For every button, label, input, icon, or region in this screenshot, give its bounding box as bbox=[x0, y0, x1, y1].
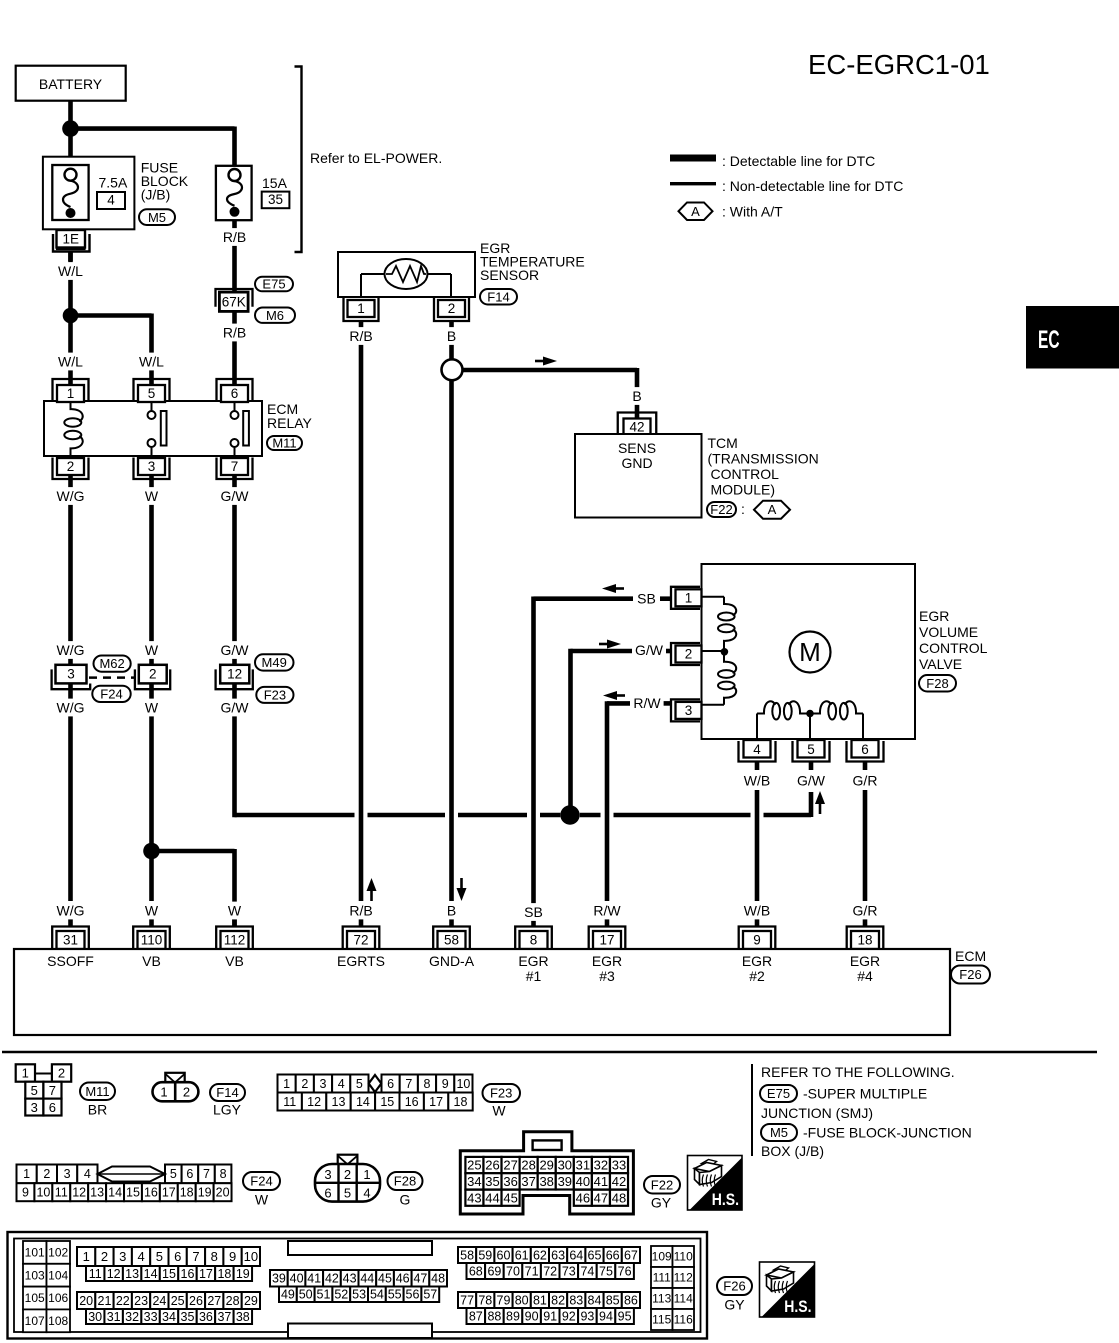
svg-text:37: 37 bbox=[521, 1174, 535, 1189]
svg-text:95: 95 bbox=[618, 1309, 632, 1323]
svg-text:25: 25 bbox=[171, 1294, 185, 1308]
svg-text:1: 1 bbox=[67, 386, 75, 401]
svg-text:27: 27 bbox=[503, 1158, 517, 1173]
svg-text:E75: E75 bbox=[262, 277, 285, 292]
svg-text:B: B bbox=[632, 388, 641, 404]
svg-text:91: 91 bbox=[543, 1309, 557, 1323]
svg-text:EGR: EGR bbox=[919, 608, 949, 624]
svg-text:48: 48 bbox=[431, 1272, 445, 1286]
svg-text:20: 20 bbox=[79, 1294, 93, 1308]
svg-text:F23: F23 bbox=[264, 688, 286, 703]
svg-text:MODULE): MODULE) bbox=[711, 482, 776, 498]
svg-text:R/B: R/B bbox=[223, 229, 246, 245]
svg-text:(TRANSMISSION: (TRANSMISSION bbox=[708, 451, 819, 467]
svg-text:112: 112 bbox=[224, 933, 246, 948]
svg-text:8: 8 bbox=[211, 1249, 218, 1264]
svg-text:VOLUME: VOLUME bbox=[919, 624, 978, 640]
svg-text:27: 27 bbox=[207, 1294, 221, 1308]
svg-text:17: 17 bbox=[199, 1267, 213, 1281]
svg-text:114: 114 bbox=[674, 1292, 693, 1306]
svg-text:CONTROL: CONTROL bbox=[711, 466, 780, 482]
svg-text:W/G: W/G bbox=[57, 700, 85, 716]
svg-text:4: 4 bbox=[84, 1167, 91, 1181]
svg-text:35: 35 bbox=[485, 1174, 499, 1189]
svg-text:11: 11 bbox=[283, 1095, 296, 1109]
svg-text:6: 6 bbox=[387, 1077, 394, 1091]
svg-text:94: 94 bbox=[599, 1309, 613, 1323]
svg-text:2: 2 bbox=[101, 1249, 108, 1264]
svg-text:101: 101 bbox=[25, 1246, 45, 1260]
svg-text:22: 22 bbox=[116, 1294, 130, 1308]
svg-text:4: 4 bbox=[753, 742, 761, 757]
svg-text:14: 14 bbox=[356, 1095, 370, 1109]
svg-text:44: 44 bbox=[485, 1190, 499, 1205]
svg-text:W/B: W/B bbox=[744, 903, 770, 919]
svg-text:5: 5 bbox=[807, 742, 815, 757]
svg-text:1E: 1E bbox=[62, 232, 79, 247]
svg-text:92: 92 bbox=[562, 1309, 576, 1323]
svg-text:58: 58 bbox=[444, 933, 459, 948]
svg-text:85: 85 bbox=[606, 1293, 620, 1307]
svg-text:18: 18 bbox=[857, 933, 872, 948]
svg-text:30: 30 bbox=[558, 1158, 572, 1173]
svg-text:7: 7 bbox=[231, 459, 239, 474]
svg-text:76: 76 bbox=[618, 1264, 632, 1278]
svg-text:19: 19 bbox=[236, 1267, 250, 1281]
svg-text:59: 59 bbox=[478, 1248, 492, 1262]
svg-text:32: 32 bbox=[594, 1158, 608, 1173]
svg-text:EGR: EGR bbox=[742, 953, 772, 969]
svg-text:34: 34 bbox=[162, 1310, 176, 1324]
svg-text::: : bbox=[741, 501, 745, 517]
svg-text:46: 46 bbox=[396, 1272, 410, 1286]
svg-text:7: 7 bbox=[49, 1083, 56, 1098]
svg-text:F26: F26 bbox=[723, 1279, 745, 1294]
svg-text:44: 44 bbox=[360, 1272, 374, 1286]
svg-text:35: 35 bbox=[181, 1310, 195, 1324]
svg-text:BATTERY: BATTERY bbox=[39, 76, 103, 92]
svg-text:R/B: R/B bbox=[223, 325, 246, 341]
svg-text:W/L: W/L bbox=[139, 354, 164, 370]
svg-text:2: 2 bbox=[448, 301, 456, 316]
svg-text:39: 39 bbox=[272, 1272, 286, 1286]
svg-text:67: 67 bbox=[624, 1248, 638, 1262]
svg-text:1: 1 bbox=[357, 301, 365, 316]
svg-text:1: 1 bbox=[23, 1167, 30, 1181]
svg-text:106: 106 bbox=[48, 1291, 68, 1305]
svg-text:56: 56 bbox=[406, 1288, 420, 1302]
svg-text:38: 38 bbox=[539, 1174, 553, 1189]
svg-text:72: 72 bbox=[353, 933, 368, 948]
svg-text:W/G: W/G bbox=[57, 642, 85, 658]
svg-text:RELAY: RELAY bbox=[267, 415, 313, 431]
svg-text:35: 35 bbox=[268, 192, 283, 207]
svg-text:E75: E75 bbox=[767, 1086, 790, 1101]
svg-text:JUNCTION (SMJ): JUNCTION (SMJ) bbox=[761, 1105, 873, 1121]
svg-text:39: 39 bbox=[558, 1174, 572, 1189]
svg-text:: With A/T: : With A/T bbox=[722, 204, 783, 220]
svg-text:66: 66 bbox=[606, 1248, 620, 1262]
svg-text:10: 10 bbox=[244, 1249, 258, 1264]
svg-text:29: 29 bbox=[244, 1294, 258, 1308]
svg-text:17: 17 bbox=[429, 1095, 443, 1109]
svg-text:(J/B): (J/B) bbox=[141, 187, 171, 203]
svg-text:82: 82 bbox=[551, 1293, 565, 1307]
svg-text:#2: #2 bbox=[749, 968, 765, 984]
svg-text:75: 75 bbox=[599, 1264, 613, 1278]
svg-text:1: 1 bbox=[283, 1077, 290, 1091]
svg-text:#3: #3 bbox=[599, 968, 615, 984]
svg-text:1: 1 bbox=[22, 1066, 29, 1081]
svg-text:34: 34 bbox=[467, 1174, 481, 1189]
svg-text:SENS: SENS bbox=[618, 440, 656, 456]
svg-text:90: 90 bbox=[525, 1309, 539, 1323]
svg-text:W/G: W/G bbox=[57, 903, 85, 919]
svg-text:60: 60 bbox=[497, 1248, 511, 1262]
svg-text:5: 5 bbox=[356, 1077, 363, 1091]
svg-text:W: W bbox=[145, 642, 159, 658]
svg-text:6: 6 bbox=[49, 1100, 56, 1115]
svg-text:6: 6 bbox=[324, 1186, 331, 1201]
svg-text:2: 2 bbox=[685, 647, 693, 662]
svg-text:53: 53 bbox=[352, 1288, 366, 1302]
svg-text:72: 72 bbox=[543, 1264, 557, 1278]
svg-text:16: 16 bbox=[405, 1095, 419, 1109]
svg-text:86: 86 bbox=[624, 1293, 638, 1307]
svg-text:3: 3 bbox=[148, 459, 156, 474]
svg-text:89: 89 bbox=[506, 1309, 520, 1323]
svg-text:93: 93 bbox=[580, 1309, 594, 1323]
svg-text:2: 2 bbox=[149, 667, 157, 682]
svg-text:24: 24 bbox=[152, 1294, 166, 1308]
svg-text:SENSOR: SENSOR bbox=[480, 267, 539, 283]
svg-text:116: 116 bbox=[674, 1313, 693, 1327]
svg-text:: Non-detectable line for DTC: : Non-detectable line for DTC bbox=[722, 178, 903, 194]
svg-text:5: 5 bbox=[344, 1186, 351, 1201]
svg-text:37: 37 bbox=[217, 1310, 231, 1324]
svg-text:3: 3 bbox=[320, 1077, 327, 1091]
svg-text:83: 83 bbox=[569, 1293, 583, 1307]
svg-text:28: 28 bbox=[521, 1158, 535, 1173]
svg-text:67K: 67K bbox=[222, 294, 246, 309]
svg-text:46: 46 bbox=[576, 1190, 590, 1205]
svg-text:103: 103 bbox=[25, 1268, 45, 1282]
svg-text:F22: F22 bbox=[651, 1177, 673, 1192]
svg-text:16: 16 bbox=[181, 1267, 195, 1281]
svg-text:15: 15 bbox=[126, 1186, 140, 1200]
svg-text:12: 12 bbox=[72, 1186, 86, 1200]
svg-text:12: 12 bbox=[307, 1095, 321, 1109]
svg-text:SSOFF: SSOFF bbox=[47, 953, 94, 969]
svg-text:23: 23 bbox=[134, 1294, 148, 1308]
svg-text:45: 45 bbox=[378, 1272, 392, 1286]
svg-text:6: 6 bbox=[174, 1249, 181, 1264]
svg-text:38: 38 bbox=[236, 1310, 250, 1324]
svg-text:LGY: LGY bbox=[213, 1102, 242, 1118]
svg-text:31: 31 bbox=[107, 1310, 121, 1324]
svg-text:SB: SB bbox=[637, 591, 656, 607]
svg-text:EC: EC bbox=[1038, 326, 1060, 354]
svg-text:54: 54 bbox=[370, 1288, 384, 1302]
svg-text:GY: GY bbox=[651, 1195, 672, 1211]
svg-text:18: 18 bbox=[454, 1095, 468, 1109]
svg-text:78: 78 bbox=[478, 1293, 492, 1307]
svg-text:58: 58 bbox=[460, 1248, 474, 1262]
svg-text:36: 36 bbox=[503, 1174, 517, 1189]
svg-text:14: 14 bbox=[144, 1267, 158, 1281]
svg-text:G/W: G/W bbox=[635, 642, 664, 658]
svg-text:EGR: EGR bbox=[850, 953, 880, 969]
svg-text:31: 31 bbox=[576, 1158, 590, 1173]
svg-text:G/R: G/R bbox=[853, 773, 878, 789]
svg-text:M11: M11 bbox=[272, 436, 296, 451]
svg-text:71: 71 bbox=[525, 1264, 539, 1278]
svg-text:7: 7 bbox=[192, 1249, 199, 1264]
svg-text:40: 40 bbox=[290, 1272, 304, 1286]
svg-text:F14: F14 bbox=[487, 289, 509, 304]
svg-text:70: 70 bbox=[506, 1264, 520, 1278]
svg-text:F28: F28 bbox=[394, 1174, 416, 1189]
svg-text:G: G bbox=[400, 1192, 411, 1208]
svg-text:5: 5 bbox=[148, 386, 156, 401]
svg-text:G/W: G/W bbox=[221, 700, 250, 716]
svg-text:F24: F24 bbox=[100, 687, 122, 702]
svg-text:68: 68 bbox=[469, 1264, 483, 1278]
svg-text:M5: M5 bbox=[770, 1125, 788, 1140]
svg-text:43: 43 bbox=[467, 1190, 481, 1205]
svg-text:4: 4 bbox=[107, 193, 115, 208]
svg-text:79: 79 bbox=[497, 1293, 511, 1307]
svg-text:16: 16 bbox=[144, 1186, 158, 1200]
svg-text:F23: F23 bbox=[490, 1086, 512, 1101]
svg-text:26: 26 bbox=[485, 1158, 499, 1173]
svg-text:47: 47 bbox=[413, 1272, 427, 1286]
svg-text:R/B: R/B bbox=[349, 903, 372, 919]
svg-text:30: 30 bbox=[88, 1310, 102, 1324]
svg-text:W: W bbox=[228, 903, 242, 919]
svg-text:13: 13 bbox=[125, 1267, 139, 1281]
svg-text:EGR: EGR bbox=[592, 953, 622, 969]
svg-text:-SUPER MULTIPLE: -SUPER MULTIPLE bbox=[803, 1086, 927, 1102]
svg-text:55: 55 bbox=[388, 1288, 402, 1302]
svg-text:115: 115 bbox=[652, 1313, 671, 1327]
svg-text:111: 111 bbox=[653, 1271, 672, 1285]
svg-text:31: 31 bbox=[63, 933, 78, 948]
svg-text:65: 65 bbox=[588, 1248, 602, 1262]
svg-text:W: W bbox=[145, 700, 159, 716]
svg-text:69: 69 bbox=[487, 1264, 501, 1278]
svg-text:26: 26 bbox=[189, 1294, 203, 1308]
svg-text:1: 1 bbox=[83, 1249, 90, 1264]
svg-text:4: 4 bbox=[338, 1077, 345, 1091]
svg-text:M11: M11 bbox=[85, 1084, 109, 1099]
svg-text:5: 5 bbox=[156, 1249, 163, 1264]
svg-text:F24: F24 bbox=[250, 1174, 272, 1189]
svg-text:21: 21 bbox=[98, 1294, 112, 1308]
svg-text:20: 20 bbox=[216, 1186, 230, 1200]
svg-text:41: 41 bbox=[307, 1272, 321, 1286]
svg-text:7.5A: 7.5A bbox=[99, 175, 128, 191]
svg-text:108: 108 bbox=[48, 1314, 68, 1328]
svg-text:3: 3 bbox=[685, 703, 693, 718]
svg-text:G/R: G/R bbox=[853, 903, 878, 919]
svg-text:52: 52 bbox=[334, 1288, 348, 1302]
svg-text:2: 2 bbox=[67, 459, 75, 474]
svg-text:2: 2 bbox=[58, 1066, 65, 1081]
svg-text:15A: 15A bbox=[262, 175, 288, 191]
svg-text:VB: VB bbox=[225, 953, 244, 969]
svg-text:10: 10 bbox=[456, 1077, 470, 1091]
svg-text:41: 41 bbox=[594, 1174, 608, 1189]
svg-text:112: 112 bbox=[674, 1271, 693, 1285]
svg-text:GY: GY bbox=[724, 1297, 745, 1313]
svg-text:W: W bbox=[145, 903, 159, 919]
svg-text:H.S.: H.S. bbox=[712, 1191, 739, 1209]
svg-text:105: 105 bbox=[25, 1291, 45, 1305]
svg-text:15: 15 bbox=[162, 1267, 176, 1281]
svg-text:SB: SB bbox=[524, 904, 543, 920]
svg-text:110: 110 bbox=[141, 933, 163, 948]
svg-text:M62: M62 bbox=[99, 656, 124, 671]
svg-text:40: 40 bbox=[576, 1174, 590, 1189]
svg-text:28: 28 bbox=[226, 1294, 240, 1308]
svg-text:47: 47 bbox=[594, 1190, 608, 1205]
svg-text:64: 64 bbox=[569, 1248, 583, 1262]
svg-text:13: 13 bbox=[90, 1186, 104, 1200]
svg-text:2: 2 bbox=[183, 1085, 190, 1100]
svg-text:74: 74 bbox=[580, 1264, 594, 1278]
svg-text:: Detectable line for DTC: : Detectable line for DTC bbox=[722, 153, 875, 169]
svg-text:EGR: EGR bbox=[518, 953, 548, 969]
svg-text:49: 49 bbox=[281, 1288, 295, 1302]
svg-text:M6: M6 bbox=[266, 308, 284, 323]
svg-text:R/B: R/B bbox=[349, 328, 372, 344]
svg-text:14: 14 bbox=[108, 1186, 122, 1200]
svg-text:R/W: R/W bbox=[593, 903, 621, 919]
svg-text:4: 4 bbox=[137, 1249, 144, 1264]
svg-text:18: 18 bbox=[217, 1267, 231, 1281]
svg-text:77: 77 bbox=[460, 1293, 474, 1307]
svg-text:61: 61 bbox=[515, 1248, 529, 1262]
svg-text:VB: VB bbox=[142, 953, 161, 969]
svg-text:3: 3 bbox=[31, 1100, 38, 1115]
svg-text:A: A bbox=[768, 502, 777, 517]
svg-text:13: 13 bbox=[332, 1095, 346, 1109]
svg-text:88: 88 bbox=[487, 1309, 501, 1323]
svg-text:M49: M49 bbox=[262, 655, 287, 670]
svg-text:GND-A: GND-A bbox=[429, 953, 475, 969]
svg-text:15: 15 bbox=[380, 1095, 394, 1109]
svg-text:2: 2 bbox=[301, 1077, 308, 1091]
svg-text:42: 42 bbox=[629, 420, 644, 435]
svg-text:17: 17 bbox=[599, 933, 614, 948]
svg-text:GND: GND bbox=[621, 455, 652, 471]
svg-text:F14: F14 bbox=[216, 1085, 238, 1100]
svg-text:33: 33 bbox=[612, 1158, 626, 1173]
svg-text:REFER TO THE FOLLOWING.: REFER TO THE FOLLOWING. bbox=[761, 1064, 955, 1080]
svg-text:113: 113 bbox=[652, 1292, 671, 1306]
svg-text:Refer to EL-POWER.: Refer to EL-POWER. bbox=[310, 150, 442, 166]
svg-text:9: 9 bbox=[753, 933, 761, 948]
svg-text:81: 81 bbox=[533, 1293, 547, 1307]
svg-text:87: 87 bbox=[469, 1309, 483, 1323]
svg-text:43: 43 bbox=[343, 1272, 357, 1286]
svg-text:10: 10 bbox=[36, 1186, 50, 1200]
svg-text:ECM: ECM bbox=[955, 948, 986, 964]
svg-text:4: 4 bbox=[363, 1186, 370, 1201]
svg-text:8: 8 bbox=[530, 933, 538, 948]
svg-text:25: 25 bbox=[467, 1158, 481, 1173]
svg-text:H.S.: H.S. bbox=[784, 1298, 811, 1316]
svg-text:102: 102 bbox=[48, 1246, 68, 1260]
svg-text:A: A bbox=[691, 204, 700, 219]
svg-text:3: 3 bbox=[324, 1167, 331, 1182]
svg-text:1: 1 bbox=[363, 1167, 370, 1182]
svg-text:45: 45 bbox=[503, 1190, 517, 1205]
svg-text:W/L: W/L bbox=[58, 263, 83, 279]
svg-text:TCM: TCM bbox=[708, 435, 738, 451]
svg-text:EC-EGRC1-01: EC-EGRC1-01 bbox=[808, 49, 990, 80]
svg-text:#4: #4 bbox=[857, 968, 873, 984]
svg-text:1: 1 bbox=[685, 591, 693, 606]
svg-text:2: 2 bbox=[344, 1167, 351, 1182]
svg-text:57: 57 bbox=[423, 1288, 437, 1302]
svg-text:11: 11 bbox=[55, 1186, 68, 1200]
svg-text:42: 42 bbox=[612, 1174, 626, 1189]
svg-text:8: 8 bbox=[424, 1077, 431, 1091]
svg-text:12: 12 bbox=[227, 667, 242, 682]
svg-text:42: 42 bbox=[325, 1272, 339, 1286]
svg-text:G/W: G/W bbox=[797, 773, 826, 789]
svg-text:107: 107 bbox=[25, 1314, 45, 1328]
svg-text:BOX (J/B): BOX (J/B) bbox=[761, 1143, 824, 1159]
svg-text:3: 3 bbox=[64, 1167, 71, 1181]
svg-text:6: 6 bbox=[861, 742, 869, 757]
svg-text:VALVE: VALVE bbox=[919, 656, 962, 672]
svg-text:W/B: W/B bbox=[744, 773, 770, 789]
svg-text:62: 62 bbox=[533, 1248, 547, 1262]
svg-text:5: 5 bbox=[170, 1167, 177, 1181]
svg-text:84: 84 bbox=[588, 1293, 602, 1307]
svg-text:W: W bbox=[145, 488, 159, 504]
svg-text:9: 9 bbox=[442, 1077, 449, 1091]
svg-text:M: M bbox=[799, 637, 821, 667]
svg-text:104: 104 bbox=[48, 1268, 68, 1282]
svg-text:29: 29 bbox=[539, 1158, 553, 1173]
svg-text:6: 6 bbox=[231, 386, 239, 401]
svg-text:1: 1 bbox=[160, 1085, 167, 1100]
svg-text:R/W: R/W bbox=[633, 695, 661, 711]
svg-text:11: 11 bbox=[89, 1267, 102, 1281]
svg-text:EGRTS: EGRTS bbox=[337, 953, 385, 969]
svg-text:B: B bbox=[447, 328, 456, 344]
svg-text:2: 2 bbox=[43, 1167, 50, 1181]
svg-text:73: 73 bbox=[562, 1264, 576, 1278]
svg-text:110: 110 bbox=[674, 1250, 693, 1264]
svg-text:W: W bbox=[492, 1103, 506, 1119]
svg-text:W/G: W/G bbox=[57, 488, 85, 504]
svg-text:B: B bbox=[447, 903, 456, 919]
svg-text:7: 7 bbox=[405, 1077, 412, 1091]
svg-text:5: 5 bbox=[31, 1083, 38, 1098]
svg-text:M5: M5 bbox=[148, 210, 166, 225]
svg-text:51: 51 bbox=[317, 1288, 331, 1302]
svg-text:50: 50 bbox=[299, 1288, 313, 1302]
svg-text:8: 8 bbox=[220, 1167, 227, 1181]
svg-text:48: 48 bbox=[612, 1190, 626, 1205]
svg-text:36: 36 bbox=[199, 1310, 213, 1324]
svg-text:80: 80 bbox=[515, 1293, 529, 1307]
